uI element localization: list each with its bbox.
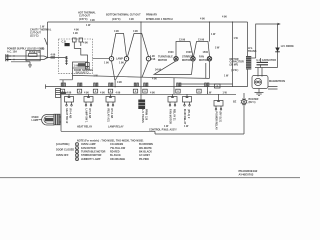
terminal tab 8 bbox=[205, 83, 207, 87]
svg-text:4 96: 4 96 bbox=[150, 91, 155, 94]
wire twist junction bbox=[44, 56, 48, 60]
svg-text:1 W: 1 W bbox=[234, 37, 239, 40]
svg-text:4 96: 4 96 bbox=[151, 58, 156, 61]
svg-text:AY40E0703: AY40E0703 bbox=[239, 173, 254, 177]
fan motor rail drop bbox=[209, 22, 211, 42]
terminal tab 3 bbox=[94, 83, 96, 87]
svg-text:FAN MOTOR: FAN MOTOR bbox=[169, 109, 172, 124]
svg-text:1 W: 1 W bbox=[223, 92, 228, 95]
ground below plug bbox=[11, 62, 30, 65]
wire neutral conductor bbox=[11, 59, 44, 61]
svg-text:4 96: 4 96 bbox=[67, 91, 72, 94]
svg-text:(RY-1) 2: (RY-1) 2 bbox=[187, 109, 190, 119]
svg-text:1500: 1500 bbox=[203, 51, 209, 54]
connector strip hatch bbox=[65, 56, 67, 65]
svg-text:NOTE (For models) : THO-N0231,: NOTE (For models) : THO-N0231, THO-N0330… bbox=[77, 139, 144, 142]
interlock feeds bbox=[74, 42, 81, 49]
svg-text:1 96: 1 96 bbox=[119, 62, 124, 65]
connector hatch at box corner bbox=[56, 89, 61, 98]
svg-text:(121°C): (121°C) bbox=[30, 35, 39, 38]
svg-text:4 96: 4 96 bbox=[51, 54, 56, 57]
svg-text:HEAT SW 12: HEAT SW 12 bbox=[65, 109, 68, 124]
terminal tab 7 bbox=[177, 83, 179, 87]
interlock switch path bbox=[74, 49, 87, 63]
fan motor M3 bbox=[207, 57, 211, 61]
motor bridge 2 bbox=[194, 42, 210, 57]
svg-text:4 96: 4 96 bbox=[129, 18, 134, 21]
terminal tab 5 bbox=[134, 83, 136, 87]
svg-text:4 96: 4 96 bbox=[200, 18, 205, 21]
terminal tab 6 bbox=[144, 83, 146, 87]
relay RY-6 bbox=[110, 94, 112, 96]
svg-text:1 W: 1 W bbox=[224, 75, 229, 78]
svg-text:LAMP: LAMP bbox=[32, 119, 39, 122]
svg-text:4 96: 4 96 bbox=[133, 30, 138, 33]
rail right drop 2 to transformer bbox=[247, 22, 249, 56]
svg-text:4 96: 4 96 bbox=[117, 81, 122, 84]
svg-text:4 96: 4 96 bbox=[84, 91, 89, 94]
monitor switch terminal A bbox=[109, 57, 113, 61]
svg-text:MOTOR: MOTOR bbox=[158, 59, 167, 62]
terminal tab 1 bbox=[61, 83, 63, 87]
svg-text:CO-GREEN: CO-GREEN bbox=[110, 143, 123, 146]
relay RY-2 bbox=[172, 94, 174, 96]
diagonal from C bbox=[142, 61, 149, 77]
svg-text:(35 MF): (35 MF) bbox=[230, 63, 239, 66]
svg-text:MOTOR: MOTOR bbox=[199, 59, 208, 62]
svg-text:LAMP: LAMP bbox=[116, 58, 123, 61]
top rail wire bbox=[48, 21, 248, 23]
rail right drop 1 bbox=[232, 22, 234, 87]
svg-text:MOTOR: MOTOR bbox=[182, 59, 191, 62]
svg-text:1 96: 1 96 bbox=[73, 32, 78, 35]
svg-text:OR-ORANGE: OR-ORANGE bbox=[110, 158, 126, 161]
svg-text:PRIM 120: PRIM 120 bbox=[145, 109, 148, 121]
terminal tab 2 bbox=[78, 83, 80, 87]
noise filter box FL1 bbox=[26, 50, 40, 60]
svg-text:4 96: 4 96 bbox=[116, 91, 121, 94]
svg-text:1 W: 1 W bbox=[164, 125, 169, 128]
control board box bbox=[61, 93, 244, 134]
thermal cutout bridge 2 bbox=[128, 34, 149, 57]
svg-text:4 96: 4 96 bbox=[114, 30, 119, 33]
hv node wire bbox=[255, 67, 278, 69]
svg-text:MAIN RELAY: MAIN RELAY bbox=[183, 109, 186, 125]
svg-text:INTERLOCK 1 SWITCH: INTERLOCK 1 SWITCH bbox=[146, 18, 173, 21]
svg-text:LAMP RELAY: LAMP RELAY bbox=[108, 125, 124, 128]
small boxes at dashed box edge bbox=[85, 63, 89, 67]
svg-text:(145°C): (145°C) bbox=[79, 18, 88, 21]
svg-text:1 W: 1 W bbox=[184, 125, 189, 128]
svg-text:A.C. 15A: A.C. 15A bbox=[7, 51, 17, 54]
wire fan common bbox=[180, 84, 233, 94]
stirrer motor M2 bbox=[191, 57, 195, 61]
svg-text:1 96: 1 96 bbox=[74, 65, 79, 68]
wire motor common drop bbox=[173, 78, 175, 94]
pcb transformer T2 bbox=[138, 100, 145, 110]
junction dots bbox=[13, 55, 14, 56]
wire to motor common bbox=[72, 68, 74, 80]
svg-text:CONTROL P.W.B. ASS'Y: CONTROL P.W.B. ASS'Y bbox=[149, 129, 177, 132]
svg-text:PK-PINK: PK-PINK bbox=[139, 158, 149, 161]
svg-text:(RY-3) 21: (RY-3) 21 bbox=[219, 112, 222, 123]
svg-text:OVEN LAMP: OVEN LAMP bbox=[81, 143, 96, 146]
connector block bbox=[51, 56, 56, 58]
svg-text:POWER RELAY: POWER RELAY bbox=[215, 112, 218, 131]
svg-text:STIRRER MOTOR: STIRRER MOTOR bbox=[81, 154, 102, 157]
svg-text:(140°C): (140°C) bbox=[112, 18, 121, 21]
svg-text:WH-WHITE: WH-WHITE bbox=[139, 147, 152, 150]
motor diagonals bbox=[154, 61, 193, 75]
svg-text:1 W: 1 W bbox=[207, 92, 212, 95]
svg-text:1 W: 1 W bbox=[40, 47, 45, 50]
svg-text:RY-4 AB: RY-4 AB bbox=[69, 109, 72, 119]
magnetron V1 bbox=[252, 76, 268, 89]
hv diode D1 bbox=[277, 24, 279, 68]
svg-text:4 96: 4 96 bbox=[83, 42, 88, 45]
wire down to tab1 bbox=[60, 80, 73, 83]
interlock switch terminal C bbox=[146, 57, 150, 61]
svg-text:HUMIDITY LAMP: HUMIDITY LAMP bbox=[81, 158, 101, 161]
svg-text:RY-5 AB: RY-5 AB bbox=[88, 109, 91, 119]
svg-text:34 96: 34 96 bbox=[155, 69, 162, 72]
svg-text:4 96: 4 96 bbox=[100, 91, 105, 94]
svg-text:( 1 W ): ( 1 W ) bbox=[231, 69, 238, 72]
legend rows bbox=[75, 143, 153, 161]
svg-text:MAGNETRON: MAGNETRON bbox=[269, 80, 285, 83]
svg-text:BL-BLUE: BL-BLUE bbox=[110, 154, 121, 157]
bottom rule bbox=[0, 177, 300, 179]
main bus wire bbox=[46, 84, 248, 88]
svg-text:1 96: 1 96 bbox=[104, 62, 109, 65]
junction connector blocks under bus bbox=[60, 89, 64, 93]
svg-text:BOTTOM THERMAL CUT-OUT: BOTTOM THERMAL CUT-OUT bbox=[106, 14, 141, 17]
motor bridge 1 bbox=[176, 42, 193, 57]
fuse F1 bbox=[29, 54, 37, 57]
junction on rail at x232 bbox=[232, 21, 233, 22]
svg-text:4 96: 4 96 bbox=[222, 16, 227, 19]
power plug P1 bbox=[6, 54, 11, 61]
svg-text:1 W: 1 W bbox=[211, 33, 216, 36]
svg-text:(BZ 1): (BZ 1) bbox=[249, 101, 256, 104]
vertical rail drop mid bbox=[140, 22, 142, 100]
svg-text:13 96: 13 96 bbox=[198, 39, 205, 42]
terminal tab 4 bbox=[109, 83, 111, 87]
secondary wire bbox=[251, 57, 255, 59]
lamp wires bbox=[60, 117, 62, 122]
svg-text:BU-BROWN: BU-BROWN bbox=[139, 143, 153, 146]
relay vertical text labels bbox=[65, 109, 222, 131]
wire line conductor bbox=[11, 55, 44, 57]
svg-text:1500: 1500 bbox=[168, 51, 174, 54]
svg-text:1 W: 1 W bbox=[86, 24, 91, 27]
relay RY-1 bbox=[186, 94, 188, 96]
svg-text:LAMP SW 1: LAMP SW 1 bbox=[85, 109, 88, 123]
arrowhead bbox=[278, 23, 281, 26]
junction on rail at x141 bbox=[140, 21, 141, 22]
svg-text:BZ: BZ bbox=[233, 101, 237, 104]
oven thermal cut-out box bbox=[73, 62, 88, 68]
svg-text:BK-BLACK: BK-BLACK bbox=[139, 151, 152, 154]
svg-text:TURNTABLE MOTOR: TURNTABLE MOTOR bbox=[81, 151, 106, 154]
svg-text:FAN MOTOR: FAN MOTOR bbox=[81, 147, 96, 150]
wire left drop from rail bbox=[47, 22, 49, 58]
dashed interlock assembly box bbox=[58, 39, 92, 73]
svg-text:FUSE 15A: FUSE 15A bbox=[29, 51, 41, 54]
svg-text:RY-6 AB: RY-6 AB bbox=[110, 109, 113, 119]
svg-text:RELAY A21: RELAY A21 bbox=[107, 109, 110, 123]
leader line bbox=[45, 38, 48, 45]
magnetron filament leads bbox=[268, 87, 278, 90]
svg-text:[LIGHTING]: [LIGHTING] bbox=[56, 143, 69, 146]
relay RY-3 bbox=[218, 94, 220, 100]
relay RY-4 bbox=[68, 94, 70, 96]
svg-text:GY-GREY: GY-GREY bbox=[139, 154, 150, 157]
junction on rail at x209 bbox=[209, 21, 210, 22]
svg-text:4 96: 4 96 bbox=[90, 19, 95, 22]
svg-text:SW (145°C): SW (145°C) bbox=[76, 71, 89, 74]
svg-text:H.V. DIODE: H.V. DIODE bbox=[281, 45, 294, 48]
wire hv top run bbox=[256, 24, 278, 58]
svg-text:1500: 1500 bbox=[186, 51, 192, 54]
svg-text:DOOR CLOSED: DOOR CLOSED bbox=[56, 149, 74, 152]
monitor diagonals bbox=[112, 61, 127, 87]
wire to monitor switch bbox=[93, 58, 110, 60]
svg-text:RD-RED: RD-RED bbox=[110, 151, 120, 154]
relay RY-5 bbox=[88, 94, 90, 96]
svg-text:4 96: 4 96 bbox=[152, 77, 157, 80]
ground under filter bbox=[28, 65, 32, 67]
svg-text:OVEN OFF: OVEN OFF bbox=[56, 154, 69, 157]
svg-text:L.V. TRANS: L.V. TRANS bbox=[141, 109, 144, 123]
turntable motor M1 bbox=[174, 57, 178, 61]
interlock switch terminal B bbox=[124, 57, 128, 61]
svg-text:H.V. CAPACITOR: H.V. CAPACITOR bbox=[257, 59, 277, 62]
svg-text:YW-YELLOW: YW-YELLOW bbox=[110, 147, 126, 150]
thermal cutout bridge 1 bbox=[112, 34, 127, 57]
svg-text:HEAT RELAY: HEAT RELAY bbox=[77, 125, 93, 128]
wire to interlock connector bbox=[48, 57, 67, 59]
ground magnetron bbox=[255, 89, 264, 96]
svg-text:RELAY 21: RELAY 21 bbox=[173, 109, 176, 121]
svg-text:13 96: 13 96 bbox=[179, 39, 186, 42]
svg-text:2 W: 2 W bbox=[215, 47, 220, 50]
svg-text:PRIMARY: PRIMARY bbox=[146, 14, 158, 17]
